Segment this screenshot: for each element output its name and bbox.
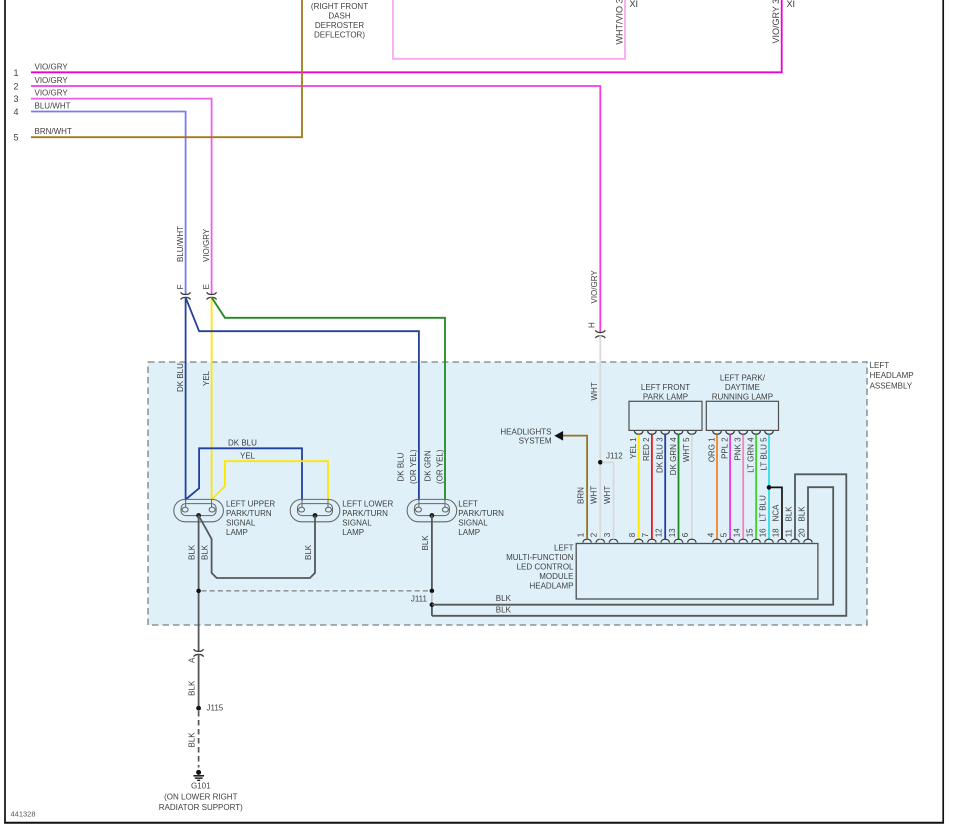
svg-text:(OR YEL): (OR YEL) — [409, 449, 418, 484]
svg-text:BLK: BLK — [797, 506, 806, 522]
module LEFT MULTI-FUNCTION LED CONTROL MODULE HEADLAMP — [576, 544, 818, 600]
wire WHT stub J112 to pin 3 — [602, 462, 613, 539]
wire YEL main vertical from connector E to left upper lamp — [211, 297, 213, 500]
svg-text:PARK/TURN: PARK/TURN — [458, 509, 504, 518]
module pin 3 — [609, 539, 618, 542]
svg-text:HEADLAMP: HEADLAMP — [870, 371, 914, 380]
svg-text:8: 8 — [628, 532, 637, 537]
svg-text:441328: 441328 — [11, 810, 36, 819]
svg-text:LAMP: LAMP — [342, 528, 364, 537]
svg-text:LT BLU: LT BLU — [758, 495, 767, 522]
svg-text:(OR YEL): (OR YEL) — [436, 449, 445, 484]
ground G101 — [196, 770, 201, 775]
svg-text:J111: J111 — [411, 594, 428, 603]
svg-text:18: 18 — [771, 528, 780, 537]
svg-text:LEFT: LEFT — [554, 544, 574, 553]
svg-text:HEADLAMP: HEADLAMP — [529, 582, 573, 591]
wire DK BLU main vertical from connector F to left upper lamp — [185, 297, 187, 500]
svg-text:PPL 2: PPL 2 — [720, 437, 729, 459]
svg-text:PARK/TURN: PARK/TURN — [226, 509, 272, 518]
svg-text:3: 3 — [603, 532, 612, 537]
svg-text:BRN: BRN — [577, 487, 586, 504]
svg-text:5: 5 — [719, 532, 728, 537]
svg-text:LEFT: LEFT — [870, 361, 890, 370]
svg-text:RUNNING LAMP: RUNNING LAMP — [712, 393, 773, 402]
svg-text:15: 15 — [745, 528, 754, 537]
svg-text:11: 11 — [784, 528, 793, 537]
svg-text:6: 6 — [681, 532, 690, 537]
svg-text:YEL 1: YEL 1 — [629, 437, 638, 459]
svg-text:E: E — [202, 284, 211, 289]
svg-text:BLK: BLK — [188, 732, 197, 748]
svg-text:RADIATOR SUPPORT): RADIATOR SUPPORT) — [159, 803, 243, 812]
LEFT FRONT PARK LAMP box — [629, 401, 702, 430]
svg-text:LEFT FRONT: LEFT FRONT — [641, 383, 690, 392]
svg-text:PNK 3: PNK 3 — [734, 437, 743, 461]
wire 1 VIO/GRY (to top right) — [31, 0, 782, 72]
svg-text:BLK: BLK — [201, 544, 210, 560]
svg-text:4: 4 — [706, 532, 715, 537]
svg-text:DK BLU: DK BLU — [228, 438, 257, 447]
svg-text:2: 2 — [590, 532, 599, 537]
svg-text:BLK: BLK — [496, 594, 512, 603]
wire BLK upper run from J111 to module pin 20 loop — [432, 487, 833, 605]
svg-text:MODULE: MODULE — [539, 572, 573, 581]
svg-text:BLK: BLK — [188, 680, 197, 696]
svg-text:DK BLU: DK BLU — [397, 452, 406, 481]
module pin 15 — [752, 539, 761, 542]
svg-text:PARK LAMP: PARK LAMP — [643, 393, 688, 402]
svg-text:J112: J112 — [606, 452, 623, 461]
svg-text:VIO/GRY 3: VIO/GRY 3 — [771, 0, 781, 44]
svg-text:SIGNAL: SIGNAL — [226, 518, 256, 527]
svg-text:DEFROSTER: DEFROSTER — [315, 21, 365, 30]
svg-text:VIO/GRY: VIO/GRY — [35, 89, 69, 98]
svg-text:VIO/GRY: VIO/GRY — [590, 270, 599, 304]
module pin 20 — [804, 539, 813, 542]
svg-text:HEADLIGHTS: HEADLIGHTS — [500, 427, 551, 436]
wire DK GRN (OR YEL) from connector E to left park/turn lamp — [212, 297, 445, 500]
wire BLK lower run from J111 to module pin 11 loop — [432, 474, 846, 616]
svg-text:YEL: YEL — [202, 370, 211, 386]
svg-text:BRN/WHT: BRN/WHT — [35, 127, 72, 136]
svg-text:XI: XI — [630, 0, 639, 9]
svg-text:13: 13 — [668, 528, 677, 537]
svg-text:(RIGHT FRONT: (RIGHT FRONT — [311, 2, 368, 11]
module pin 7 — [648, 539, 657, 542]
module pin 11 — [791, 539, 800, 542]
svg-text:ASSEMBLY: ASSEMBLY — [870, 382, 913, 391]
svg-text:WHT: WHT — [590, 382, 599, 400]
module pin 18 — [778, 539, 787, 542]
svg-text:14: 14 — [733, 528, 742, 537]
svg-text:DASH: DASH — [328, 11, 350, 20]
svg-text:DK BLU 3: DK BLU 3 — [656, 437, 665, 473]
module pin 4 — [713, 539, 722, 542]
svg-text:YEL: YEL — [240, 452, 256, 461]
svg-text:NCA: NCA — [771, 504, 780, 522]
dashed bus wire to J111 — [202, 590, 430, 592]
wire BLK jumper upper lamp to lower lamp — [199, 516, 315, 579]
svg-text:J115: J115 — [207, 704, 224, 713]
svg-text:XI: XI — [787, 0, 796, 9]
wire pin 5 LT BLU lamp to module — [765, 431, 774, 434]
svg-text:DK GRN 4: DK GRN 4 — [669, 437, 678, 475]
svg-text:20: 20 — [797, 528, 806, 537]
lamp LEFT LOWER PARK/TURN SIGNAL LAMP — [290, 499, 340, 521]
wire pin 1 YEL lamp to module — [634, 431, 643, 434]
lamp LEFT PARK/TURN SIGNAL LAMP — [407, 499, 457, 521]
module pin 14 — [739, 539, 748, 542]
svg-text:5: 5 — [13, 133, 18, 143]
svg-text:16: 16 — [758, 528, 767, 537]
wire NCA stub pin 18 — [771, 487, 782, 539]
node J111 lower — [430, 602, 435, 607]
wire BRN pin 1 to HEADLIGHTS SYSTEM arrow — [562, 436, 587, 540]
svg-text:BLU/WHT: BLU/WHT — [176, 226, 185, 262]
module pin 1 — [583, 539, 592, 542]
node J112 — [598, 460, 603, 465]
svg-text:DK GRN: DK GRN — [423, 450, 432, 481]
svg-text:BLU/WHT: BLU/WHT — [35, 102, 71, 111]
svg-text:PARK/TURN: PARK/TURN — [342, 509, 388, 518]
svg-text:2: 2 — [13, 82, 18, 92]
svg-text:MULTI-FUNCTION: MULTI-FUNCTION — [506, 553, 574, 562]
wire DK BLU (OR YEL) from connector F to left park/turn lamp — [186, 297, 419, 500]
wire segment between J111 nodes — [431, 593, 433, 604]
svg-text:3: 3 — [13, 94, 18, 104]
wire pin 2 RED lamp to module — [648, 431, 657, 434]
svg-text:BLK: BLK — [188, 544, 197, 560]
svg-text:A: A — [188, 657, 197, 663]
svg-text:SIGNAL: SIGNAL — [458, 518, 488, 527]
svg-text:ORG 1: ORG 1 — [707, 437, 716, 462]
lamp LEFT UPPER PARK/TURN SIGNAL LAMP — [174, 499, 224, 521]
wire WHT from connector H to J112 — [599, 336, 601, 463]
svg-text:WHT: WHT — [603, 486, 612, 504]
wire BLK from A to J115 — [198, 654, 200, 708]
svg-text:BLK: BLK — [496, 605, 512, 614]
wire BLK from left upper lamp down to ground path — [198, 515, 200, 651]
wire BLK dashed from J115 to ground G101 — [198, 711, 200, 768]
svg-text:LAMP: LAMP — [458, 528, 480, 537]
svg-text:BLK: BLK — [304, 544, 313, 560]
module pin 8 — [634, 539, 643, 542]
svg-text:DK BLU: DK BLU — [176, 363, 185, 392]
svg-text:1: 1 — [13, 68, 18, 78]
wire BLK from left park/turn lamp down to J111 — [431, 515, 433, 591]
module pin 5 — [726, 539, 735, 542]
svg-text:LT BLU 5: LT BLU 5 — [759, 437, 768, 471]
svg-text:H: H — [587, 322, 596, 328]
node on LT BLU wire — [767, 485, 772, 490]
svg-text:VIO/GRY: VIO/GRY — [202, 228, 211, 262]
svg-text:RED 2: RED 2 — [642, 437, 651, 461]
svg-text:VIO/GRY: VIO/GRY — [35, 62, 69, 71]
svg-text:LEFT UPPER: LEFT UPPER — [226, 499, 275, 508]
module pin 16 — [765, 539, 774, 542]
svg-text:(ON LOWER RIGHT: (ON LOWER RIGHT — [164, 792, 237, 801]
wire 3 VIO/GRY (down to connector E) — [31, 99, 212, 295]
wire pin 4 DK GRN lamp to module — [674, 431, 683, 434]
LEFT PARK/DAYTIME RUNNING LAMP box — [706, 401, 778, 430]
svg-text:LEFT: LEFT — [458, 499, 478, 508]
svg-text:LEFT LOWER: LEFT LOWER — [342, 499, 393, 508]
wire pin 3 PNK lamp to module — [739, 431, 748, 434]
LEFT HEADLAMP ASSEMBLY dashed box — [148, 362, 867, 625]
wire DK BLU branch to left lower lamp — [186, 448, 302, 500]
svg-text:4: 4 — [13, 107, 18, 117]
svg-text:BLK: BLK — [784, 506, 793, 522]
wire YEL branch to left lower lamp — [212, 461, 328, 500]
wire 5 BRN/WHT (up to top, right front dash defroster deflector) — [31, 0, 302, 137]
svg-text:12: 12 — [655, 528, 664, 537]
wire pin 3 DK BLU lamp to module — [661, 431, 670, 434]
module pin 12 — [661, 539, 670, 542]
svg-text:DAYTIME: DAYTIME — [725, 383, 760, 392]
svg-text:LAMP: LAMP — [226, 528, 248, 537]
page frame bottom border — [4, 822, 944, 824]
node J115 — [196, 706, 201, 711]
module pin 2 — [596, 539, 605, 542]
svg-text:LT GRN 4: LT GRN 4 — [746, 437, 755, 473]
svg-text:G101: G101 — [191, 781, 211, 790]
svg-text:WHT 5: WHT 5 — [682, 437, 691, 462]
wire pin 2 PPL lamp to module — [726, 431, 735, 434]
wire WHT pin 2 up through J112 — [599, 462, 601, 539]
junction node on dashed bus at left — [196, 589, 201, 594]
wire 4 BLU/WHT (down to connector F) — [31, 112, 186, 295]
svg-text:LED CONTROL: LED CONTROL — [517, 563, 574, 572]
svg-text:7: 7 — [641, 532, 650, 537]
svg-text:1: 1 — [576, 532, 585, 537]
wire pin 1 ORG lamp to module — [713, 431, 722, 434]
wire 2 VIO/GRY (down to connector H) — [31, 86, 600, 333]
module pin 13 — [674, 539, 683, 542]
node J111 upper — [430, 589, 435, 594]
arrow HEADLIGHTS SYSTEM — [554, 431, 563, 441]
wire WHT/VIO pale pink U at top — [393, 0, 625, 59]
page frame right border — [942, 0, 944, 824]
page frame left border — [4, 0, 6, 824]
svg-text:BLK: BLK — [421, 535, 430, 551]
svg-text:WHT: WHT — [590, 486, 599, 504]
svg-text:SIGNAL: SIGNAL — [342, 518, 372, 527]
svg-text:SYSTEM: SYSTEM — [519, 437, 552, 446]
svg-text:LEFT PARK/: LEFT PARK/ — [720, 374, 766, 383]
wire pin 5 WHT lamp to module — [688, 431, 697, 434]
wire pin 4 LT GRN lamp to module — [752, 431, 761, 434]
svg-text:F: F — [176, 284, 185, 289]
svg-text:DEFLECTOR): DEFLECTOR) — [314, 30, 365, 39]
module pin 6 — [688, 539, 697, 542]
svg-text:VIO/GRY: VIO/GRY — [35, 76, 69, 85]
svg-text:WHT/VIO 3: WHT/VIO 3 — [614, 0, 624, 45]
